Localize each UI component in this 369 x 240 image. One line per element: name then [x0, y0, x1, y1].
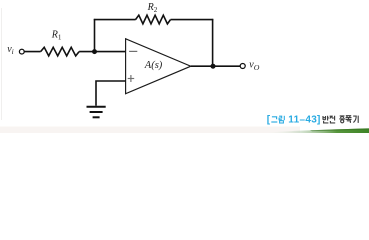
output node junction dot — [211, 64, 216, 69]
resistor R1 zigzag — [41, 47, 80, 56]
wire R1 to op-amp minus input — [79, 51, 126, 53]
caption hangul RIM — [279, 116, 284, 123]
op-amp plus sign — [128, 78, 135, 80]
caption hangul JEON — [330, 116, 336, 123]
caption hangul JEUNG — [339, 116, 345, 123]
svg-text:vi: vi — [7, 44, 14, 56]
faint page-left artifact line — [1, 8, 2, 120]
svg-text:[: [ — [267, 114, 271, 125]
wire node A up to feedback row — [94, 19, 96, 52]
ground bar 1 — [87, 106, 106, 108]
svg-text:11–43]: 11–43] — [288, 114, 320, 125]
caption hangul BAN — [323, 116, 329, 123]
grass darker top edge — [310, 128, 369, 131]
output wire from op-amp apex — [191, 65, 241, 67]
feedback top wire left segment — [94, 19, 136, 21]
svg-text:A(s): A(s) — [144, 60, 163, 71]
caption hangul GI — [353, 116, 358, 123]
feedback top wire right segment — [171, 19, 214, 21]
caption hangul POK — [346, 116, 352, 123]
ground bar 2 — [90, 111, 103, 113]
wire feedback down to output node — [212, 19, 214, 66]
output terminal circle — [240, 64, 245, 69]
resistor R2 zigzag — [136, 15, 171, 24]
node A junction dot — [92, 49, 97, 54]
caption hangul GEU — [271, 117, 277, 122]
wire plus input to ground corner — [96, 81, 126, 106]
svg-text:vO: vO — [249, 60, 259, 73]
bottom faint warm band (left part of bottom strip) — [0, 127, 300, 134]
svg-text:R2: R2 — [147, 2, 158, 14]
wire input terminal to R1 — [24, 51, 40, 53]
ground bar 3 — [93, 116, 100, 118]
input terminal circle — [19, 49, 24, 54]
op-amp minus sign — [129, 50, 137, 52]
op-amp U1 triangle — [126, 39, 191, 94]
svg-text:R1: R1 — [51, 29, 62, 41]
grass photo strip bottom-right — [262, 128, 369, 133]
